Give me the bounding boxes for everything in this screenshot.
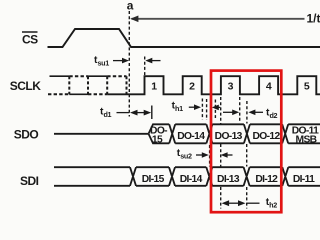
bus SDI rails and transitions — [54, 167, 320, 186]
dashed tick SCLK fall 3 — [239, 97, 241, 121]
dashed reference data transition x=209.6 — [209, 145, 211, 167]
highlight box (red) — [211, 71, 281, 213]
svg-text:1: 1 — [151, 81, 157, 93]
svg-text:2: 2 — [189, 81, 195, 93]
svg-text:DI-15: DI-15 — [142, 174, 165, 185]
svg-text:DI-13: DI-13 — [217, 174, 240, 185]
dimension arrow td1 — [117, 106, 152, 120]
svg-text:1/tSC: 1/tSC — [307, 12, 320, 28]
svg-text:SDI: SDI — [20, 174, 39, 188]
svg-text:DO-14: DO-14 — [177, 131, 205, 142]
svg-text:DI-11: DI-11 — [293, 174, 315, 185]
svg-text:3: 3 — [228, 81, 234, 93]
dimension arrow th2 — [222, 200, 260, 206]
wire SCLK dont-care dashed rails — [48, 76, 127, 94]
dashed reference SCLK rise 3 — [220, 97, 222, 209]
dashed tick SDO transition start — [206, 99, 208, 120]
signal label CS (active low) — [22, 32, 38, 47]
dimension arrow th1 — [189, 104, 221, 110]
svg-text:a: a — [127, 0, 134, 12]
svg-text:15: 15 — [152, 135, 163, 146]
dashed tick SCLK fall 2 — [201, 99, 203, 120]
dimension arrow td2 — [223, 110, 263, 116]
wire SDO high-Z lead — [54, 133, 149, 135]
wire SCLK waveform pulses 1-5 — [107, 76, 320, 94]
dashed tick SDO transition end — [214, 100, 216, 119]
dashed tick at SCLK edge 1 — [144, 57, 146, 76]
bus SDO rails and transitions — [149, 124, 320, 143]
dashed reference data transition x=247 — [246, 101, 248, 209]
dimension arrow tsu1 right — [145, 58, 160, 64]
dimension arrow tsu1 left — [113, 58, 129, 64]
svg-text:SDO: SDO — [14, 128, 39, 142]
svg-text:5: 5 — [304, 81, 310, 93]
svg-text:SCLK: SCLK — [10, 79, 42, 93]
svg-text:CS: CS — [22, 33, 38, 47]
svg-text:DI-12: DI-12 — [255, 174, 278, 185]
wire SCLK dont-care dashed edges — [69, 76, 126, 94]
dashed reference line a — [128, 11, 130, 117]
svg-text:DI-14: DI-14 — [180, 174, 203, 185]
dimension arrow tsu2 — [196, 152, 233, 158]
1/tSCLK dimension line — [130, 15, 304, 22]
svg-text:4: 4 — [266, 81, 272, 93]
wire CS waveform — [48, 29, 320, 47]
wire SCLK dont-care solid phase — [50, 76, 108, 94]
svg-text:MSB: MSB — [296, 135, 317, 146]
svg-text:DO-13: DO-13 — [215, 131, 243, 142]
svg-text:DO-12: DO-12 — [252, 131, 280, 142]
